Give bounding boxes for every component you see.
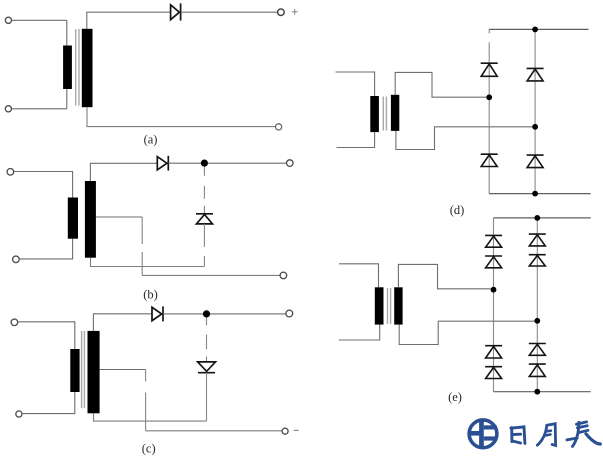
diode (e) upper-right first	[529, 234, 546, 246]
diode (e) lower-left first	[485, 346, 502, 358]
junction (e) bottom rail node	[534, 389, 540, 395]
transformer (c) primary winding	[70, 349, 79, 392]
wire (b) primary top lead	[14, 172, 73, 198]
wire (a) primary vertical	[66, 20, 68, 109]
transformer (c) core	[82, 331, 85, 408]
diode (e) lower-left second	[485, 367, 502, 379]
output terminal (c) upper-right	[286, 310, 293, 317]
diode (e) upper-left first	[485, 235, 502, 247]
transformer (a) core	[76, 29, 79, 106]
wire (c) secondary top to diode	[93, 314, 151, 331]
input terminal (b) upper-left	[7, 169, 14, 176]
wire (e) secondary bottom to bridge right node	[399, 321, 534, 344]
wire (a) primary bottom lead	[12, 108, 67, 110]
transformer (e) secondary winding	[394, 287, 402, 324]
diode (b) series rectifier	[157, 156, 168, 171]
wire (c) centre tap lead	[100, 369, 146, 371]
svg-text:(d): (d)	[450, 203, 465, 217]
wire (b) bottom output rail	[142, 274, 280, 276]
wire (d) bridge right branch	[534, 29, 536, 193]
wire (c) bottom output rail	[146, 430, 282, 432]
svg-text:(a): (a)	[144, 133, 158, 147]
transformer (d) secondary winding	[391, 95, 399, 131]
wire (d) primary top lead	[336, 72, 375, 96]
wire (d) primary bottom lead	[337, 132, 375, 147]
transformer (a) primary winding	[63, 46, 72, 90]
wire (b) centre tap lead	[96, 216, 142, 218]
wire (d) secondary top to bridge left node	[395, 72, 486, 97]
wire (d) negative bottom rail	[489, 193, 591, 195]
wire (e) primary bottom lead	[339, 325, 380, 340]
input terminal (c) upper-left	[11, 319, 18, 326]
transformer (c) secondary winding	[88, 331, 100, 413]
transformer (e) primary winding	[375, 287, 384, 324]
junction (c) output node	[203, 310, 210, 317]
label plus sign (a)	[292, 9, 298, 15]
svg-text:(c): (c)	[142, 442, 156, 456]
diode (d) bridge upper-right	[527, 68, 544, 81]
logo emblem ring	[469, 420, 497, 448]
diode (c) series rectifier	[152, 306, 163, 321]
output terminal (b) lower-right	[280, 272, 287, 279]
junction (b) output node	[201, 160, 208, 167]
label minus sign (c)	[294, 429, 299, 431]
junction (e) right AC node	[534, 318, 540, 324]
wire (d) positive top rail	[489, 28, 588, 30]
diode (e) lower-right second	[529, 364, 546, 376]
wire (c) centre tap vertical	[145, 370, 147, 382]
output terminal (a) minus	[276, 124, 282, 130]
junction (d) left AC node	[486, 94, 492, 100]
junction (e) left AC node	[491, 287, 497, 293]
input terminal (b) lower-left	[13, 256, 20, 263]
diode (d) bridge lower-left	[481, 154, 498, 166]
wire (c) diode to output	[163, 313, 286, 315]
input terminal (c) lower-left	[16, 411, 22, 417]
transformer (a) secondary winding	[82, 29, 93, 107]
output terminal (b) upper-right	[287, 160, 294, 167]
wire (a) secondary top to diode	[87, 12, 171, 29]
wire (c) shunt diode down to rail	[206, 373, 208, 421]
wire (e) negative bottom rail	[494, 391, 591, 393]
transformer (b) primary winding	[68, 198, 78, 239]
diode (e) upper-left second	[485, 256, 502, 268]
wire (a) secondary bottom to output	[87, 107, 275, 126]
junction (d) top rail node	[532, 27, 538, 33]
input terminal (a) lower-left	[5, 106, 11, 112]
wire (e) secondary top to bridge left node	[398, 264, 490, 288]
wire (c) primary top lead	[18, 322, 75, 349]
input terminal (a) upper-left	[5, 17, 11, 23]
wire (b) centre tap vertical	[141, 217, 143, 275]
junction (e) top rail node	[534, 215, 540, 221]
svg-text:(e): (e)	[448, 390, 462, 404]
diode (d) bridge lower-right	[527, 155, 544, 168]
junction (d) bottom rail node	[532, 191, 538, 197]
output terminal (c) lower-right	[282, 428, 288, 434]
transformer (d) primary winding	[370, 96, 379, 132]
diode (a) rectifier	[171, 3, 181, 20]
wire (c) primary bottom lead	[22, 392, 75, 414]
logo character RI (sun)	[511, 427, 525, 444]
wire (e) bridge right branch	[536, 218, 538, 392]
wire (e) primary top lead	[339, 264, 379, 288]
diode (b) shunt, pointing up	[196, 214, 213, 224]
wire (d) secondary bottom to bridge right node	[396, 127, 532, 150]
diode (e) upper-right second	[529, 255, 546, 266]
wire (b) diode to output	[168, 162, 286, 164]
wire (b) primary bottom lead	[19, 239, 72, 259]
wire (a) diode to output	[181, 11, 278, 13]
junction (d) right AC node	[532, 124, 538, 130]
transformer (b) secondary winding	[85, 181, 96, 258]
svg-text:(b): (b)	[143, 288, 158, 302]
wire (b) second diode down to lower rail	[203, 224, 205, 267]
wire (b) node down to second diode	[203, 167, 205, 214]
wire (e) bridge left branch	[493, 218, 495, 392]
transformer (e) core	[388, 288, 391, 324]
logo character YUE (moon)	[537, 424, 555, 446]
wire (b) secondary bottom to diode rail	[91, 258, 205, 267]
diode (c) shunt, pointing down	[198, 362, 216, 373]
wire (d) bridge left branch	[488, 29, 490, 193]
wire (a) primary top lead	[12, 19, 67, 21]
transformer (d) core	[383, 97, 386, 131]
output terminal (a) plus	[278, 9, 285, 16]
logo character CHEN (morning star)	[567, 422, 600, 447]
wire (b) secondary top to diode	[90, 163, 157, 181]
wire (e) positive top rail	[494, 217, 591, 219]
wire (c) node down to shunt diode	[206, 318, 208, 362]
wire (c) secondary bottom to diode rail	[94, 413, 207, 421]
diode (e) lower-right first	[529, 344, 546, 356]
diode (d) bridge upper-left	[481, 63, 498, 76]
